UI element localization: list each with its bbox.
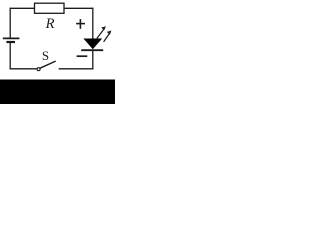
svg-text:S: S (42, 48, 49, 63)
svg-text:R: R (45, 16, 55, 32)
